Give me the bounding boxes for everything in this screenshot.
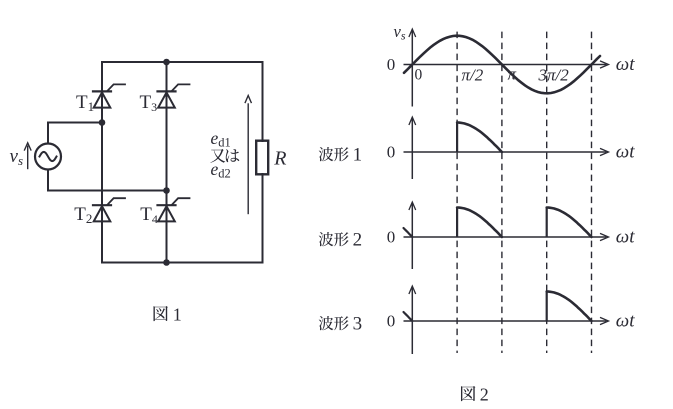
thyristor T1 [93, 84, 125, 107]
axis waveform3 vertical [411, 288, 413, 355]
thyristor T2 [93, 198, 125, 221]
arrow ed1/ed2 direction [247, 104, 249, 214]
wire bottom rail [102, 262, 263, 264]
wire left bridge leg (T1/T2 branch) [101, 62, 103, 263]
wire load branch upper [262, 62, 264, 141]
node D: bottom rail / T4 branch [163, 259, 170, 266]
svg-text:0: 0 [387, 312, 396, 331]
arrow vs polarity [27, 146, 29, 168]
axis vs vertical [411, 31, 413, 107]
resistor R [256, 141, 268, 175]
svg-text:1: 1 [173, 305, 182, 325]
svg-text:ωt: ωt [616, 54, 635, 75]
grid dashed line at 2pi [591, 32, 593, 353]
label 図2 [461, 386, 475, 401]
grid dashed line at 3pi/2 [546, 32, 548, 353]
label waveform3 row: 波形 3 [319, 316, 334, 330]
label waveform2 row: 波形 2 [319, 232, 334, 246]
curve waveform2 tail at origin [404, 228, 413, 237]
axis waveform2 horizontal (wt) [404, 236, 607, 238]
curve waveform2 pulse pi/2..pi [456, 208, 458, 238]
label waveform1 row: 波形 1 [319, 147, 334, 161]
label 又は [210, 149, 225, 163]
svg-text:π/2: π/2 [462, 66, 484, 85]
axis waveform2 vertical [411, 204, 413, 270]
curve vs sine wave [404, 36, 600, 94]
grid dashed line at pi [501, 32, 503, 353]
svg-text:3π/2: 3π/2 [538, 66, 570, 85]
svg-text:ωt: ωt [616, 227, 635, 248]
AC source vs [35, 144, 61, 170]
thyristor T4 [158, 198, 190, 221]
axis waveform1 horizontal (wt) [404, 151, 607, 153]
node C: junction T3/T4 - source bottom [163, 187, 170, 194]
svg-text:R: R [273, 148, 286, 170]
curve waveform1 pulse pi/2..pi [456, 123, 458, 153]
wire right bridge leg (T3/T4 branch) [166, 62, 168, 263]
svg-text:3: 3 [353, 314, 363, 335]
axis waveform1 vertical [411, 119, 413, 180]
axis waveform3 horizontal (wt) [404, 320, 607, 322]
svg-text:0: 0 [387, 228, 396, 247]
wire source top lead [48, 123, 102, 144]
curve waveform3 pulse 3pi/2..2pi [546, 292, 548, 322]
wire top rail [102, 61, 263, 63]
wire source bottom lead [48, 170, 167, 191]
curve waveform3 tail at origin [404, 312, 413, 321]
svg-text:ωt: ωt [616, 311, 635, 332]
grid dashed line at pi/2 [456, 32, 458, 353]
label 図1 [153, 306, 167, 321]
curve waveform2 pulse 3pi/2..2pi [546, 208, 548, 238]
svg-text:0: 0 [415, 67, 423, 84]
axis vs horizontal (wt) [404, 64, 607, 66]
svg-text:2: 2 [480, 385, 489, 405]
svg-text:ωt: ωt [616, 142, 635, 163]
svg-text:0: 0 [387, 55, 396, 74]
svg-text:2: 2 [353, 230, 363, 251]
thyristor T3 [158, 84, 190, 107]
svg-text:π: π [508, 65, 517, 84]
wire load branch lower [262, 174, 264, 263]
node B: top rail / T3 branch [163, 59, 170, 66]
node A: junction T1/T2 - source top [99, 119, 106, 126]
svg-text:0: 0 [387, 143, 396, 162]
svg-text:1: 1 [353, 145, 363, 166]
